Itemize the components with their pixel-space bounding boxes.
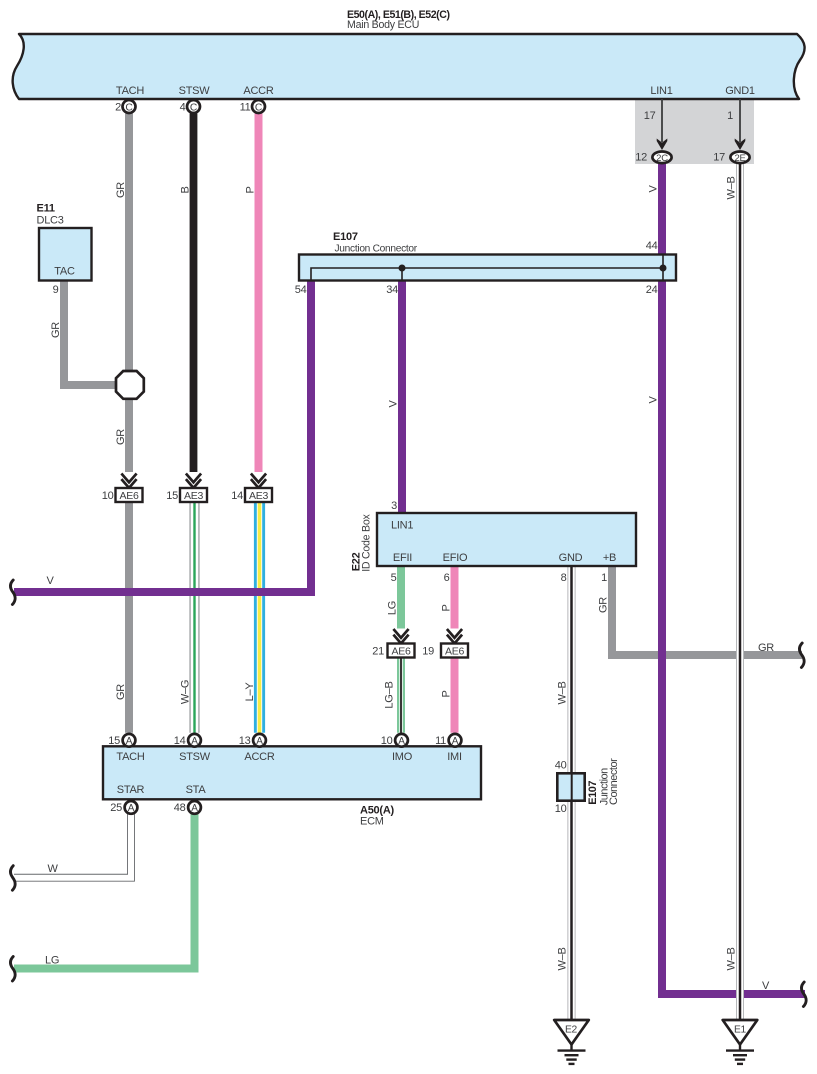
svg-text:1: 1 [727,110,733,122]
svg-text:AE6: AE6 [119,490,139,502]
E107 small junction connector box [557,773,584,800]
svg-text:V: V [648,396,660,404]
wire W-B black stripe [570,566,573,1021]
svg-text:2: 2 [115,101,121,113]
svg-text:17: 17 [644,110,656,122]
ground E2 [554,1020,589,1064]
svg-text:ECM: ECM [360,816,384,828]
AE6 connector 19 chevrons [447,629,462,643]
svg-text:A: A [398,736,405,747]
E107 internal drop 44-24 [662,256,664,280]
E107 junction connector box [299,255,676,281]
svg-text:40: 40 [555,760,567,772]
AE6 connector 10 [102,488,143,502]
svg-text:4: 4 [180,101,186,113]
E22 ID Code Box [377,513,636,566]
svg-text:IMI: IMI [447,751,462,763]
svg-text:Connector: Connector [608,758,620,805]
E107 internal drop 34 [401,268,403,280]
svg-text:A: A [191,736,198,747]
svg-text:STA: STA [186,784,207,796]
break squiggle V right [801,982,806,1007]
svg-text:C: C [190,102,198,113]
svg-text:12: 12 [635,152,647,164]
wire GR from DLC3 TAC pin 9 [64,280,117,385]
break squiggle GR right [799,643,804,668]
wire W-B white core [568,566,574,1021]
AE6 connector 19 [422,644,468,658]
svg-text:24: 24 [646,284,658,296]
wire LG-B from AE6 to ECM IMO green [397,657,405,733]
svg-text:ACCR: ACCR [243,85,273,97]
wire LG-B white gap [399,657,402,733]
ECM box A50(A) [103,746,481,799]
ECM pin 13 circle A [239,734,266,747]
svg-text:LG–B: LG–B [384,681,396,708]
svg-text:B: B [180,186,192,193]
svg-text:1: 1 [601,572,607,584]
svg-text:E11: E11 [37,203,55,215]
svg-text:E107: E107 [587,781,599,805]
svg-text:EFIO: EFIO [443,552,468,564]
wire LIN1 thin lead [661,99,663,142]
wire P ACCR vertical [255,114,263,473]
wire W-G white core [191,502,199,733]
wire W-B from 2E to ground E1 outline [736,163,744,1021]
svg-text:W–G: W–G [180,680,192,704]
AE3 connector 14 [231,488,272,502]
wire P from AE6 to ECM IMI [451,657,459,733]
svg-text:GR: GR [598,597,610,613]
svg-text:GR: GR [115,182,127,198]
svg-text:EFII: EFII [393,552,412,564]
svg-text:GND: GND [559,552,583,564]
ECM pin 48 circle A [174,801,201,814]
svg-text:2E: 2E [734,153,745,164]
svg-text:IMO: IMO [392,751,413,763]
break squiggle LG left [10,957,15,982]
svg-text:E2: E2 [565,1025,578,1036]
svg-text:W–B: W–B [726,947,738,970]
wire W from ECM STAR to left edge [14,814,131,878]
svg-text:ACCR: ACCR [244,751,274,763]
svg-text:W: W [48,863,59,875]
svg-text:V: V [648,185,660,193]
svg-text:Junction Connector: Junction Connector [335,244,418,255]
wire GR from E22 +B to right edge [612,566,802,655]
ECM pin 25 circle A [110,801,137,814]
wire L-Y white gaps [257,502,262,733]
svg-text:TAC: TAC [54,266,75,278]
arrowhead GND1 [735,139,746,151]
AE6 connector 21 [372,644,414,658]
E11 DLC3 box [39,228,92,281]
wire GND1 thin lead [739,99,741,142]
svg-text:15: 15 [108,735,120,747]
AE3 connector 15 [166,488,207,502]
E107 internal bus [311,268,663,280]
ECU pin 2 circle C [115,100,135,113]
svg-text:48: 48 [174,802,186,814]
wire V from 2C to E107 pin 44 [658,163,666,255]
svg-text:P: P [245,186,257,193]
svg-text:25: 25 [110,802,122,814]
ECM pin 11 circle A [435,734,461,747]
break squiggle W left [10,866,15,891]
svg-text:LG: LG [387,601,399,615]
wire W-G STSW lower outline [190,502,200,733]
svg-text:14: 14 [231,490,243,502]
svg-text:13: 13 [239,735,251,747]
svg-text:LG: LG [45,954,59,966]
ECM pin 15 circle A [108,734,135,747]
svg-text:3: 3 [391,500,397,512]
svg-text:6: 6 [444,572,450,584]
svg-text:AE3: AE3 [184,490,204,502]
wire LG-B black stripe [400,657,402,733]
svg-text:E107: E107 [333,231,358,243]
svg-text:GR: GR [50,322,62,338]
svg-text:GR: GR [115,684,127,700]
svg-text:E1: E1 [734,1025,747,1036]
svg-text:C: C [125,102,133,113]
svg-text:V: V [762,980,770,992]
AE3 connector 15 chevrons [186,474,201,488]
wire V from E107 pin 24 to right edge bottom [662,281,805,994]
svg-text:C: C [255,102,263,113]
svg-text:21: 21 [372,645,384,657]
wire V horizontal to E107 pin 54 [14,281,311,592]
svg-text:LIN1: LIN1 [391,520,413,532]
svg-text:DLC3: DLC3 [37,215,64,227]
svg-text:AE6: AE6 [391,646,411,658]
junction octagon on TACH wire [116,371,144,399]
svg-text:AE3: AE3 [249,490,269,502]
wire B STSW vertical [190,114,198,473]
wire W-B white core [737,163,743,1021]
AE6 connector 10 chevrons [121,474,136,488]
svg-text:AE6: AE6 [445,646,465,658]
junction dot 34 [399,265,406,272]
wire L-Y yellow stripe [258,502,262,733]
svg-text:V: V [47,575,55,587]
AE3 connector 14 chevrons [251,474,266,488]
svg-text:17: 17 [713,152,725,164]
svg-text:A: A [128,803,135,814]
svg-text:ID Code Box: ID Code Box [361,514,373,572]
svg-text:11: 11 [435,735,446,747]
wire W-B black stripe [739,163,742,1021]
svg-text:14: 14 [174,735,186,747]
wire L-Y ACCR lower blue [254,502,265,733]
connector shade area (gray) [635,99,754,164]
svg-text:10: 10 [102,490,114,502]
svg-text:A: A [126,736,133,747]
svg-text:44: 44 [646,240,658,252]
ground E1 [723,1020,758,1064]
svg-text:STSW: STSW [179,85,211,97]
wire GR TACH vertical upper [125,114,133,473]
svg-text:9: 9 [53,284,59,296]
connector 2E [713,152,749,164]
AE6 connector 21 chevrons [393,629,408,643]
svg-text:A: A [452,736,459,747]
ECM pin 10 circle A [381,734,408,747]
svg-text:TACH: TACH [116,85,144,97]
E107 small internal wire [571,775,573,801]
wire LG from E22 EFII to AE6 [397,566,405,629]
wire V from E107 pin 34 to E22 LIN1 [398,281,406,514]
svg-text:L–Y: L–Y [244,682,256,702]
break squiggle V left [10,580,15,605]
wire W-G green stripe [193,502,195,733]
svg-text:15: 15 [166,490,178,502]
svg-text:54: 54 [295,284,307,296]
wire GR TACH vertical lower [125,502,133,733]
svg-text:P: P [441,604,453,611]
svg-text:LIN1: LIN1 [650,85,672,97]
connector 2C [635,152,671,164]
svg-text:8: 8 [561,572,567,584]
svg-text:+B: +B [603,552,616,564]
ECM pin 14 circle A [174,734,201,747]
svg-text:10: 10 [555,803,567,815]
wire W-B from E22 GND to ground E2 outline [568,566,576,1021]
svg-text:GR: GR [115,429,127,445]
svg-text:V: V [388,400,400,408]
ECU pin 11 circle C [240,100,265,113]
svg-text:STSW: STSW [179,751,211,763]
svg-text:STAR: STAR [117,784,145,796]
svg-text:10: 10 [381,735,393,747]
svg-text:P: P [441,690,453,697]
svg-text:19: 19 [422,645,434,657]
svg-text:GND1: GND1 [725,85,755,97]
svg-text:A: A [191,803,198,814]
svg-text:34: 34 [386,284,398,296]
svg-text:GR: GR [758,642,774,654]
svg-text:5: 5 [391,572,397,584]
Main Body ECU box [13,34,805,99]
svg-text:Main Body ECU: Main Body ECU [347,19,419,31]
svg-text:TACH: TACH [116,751,144,763]
svg-text:W–B: W–B [557,681,569,704]
svg-text:W–B: W–B [557,947,569,970]
wire P from E22 EFIO to AE6 [451,566,459,629]
wire W white core [14,814,131,878]
svg-text:A: A [256,736,263,747]
ECU pin 4 circle C [180,100,200,113]
wire LG from ECM STA to left edge [14,814,195,969]
svg-text:11: 11 [240,101,251,113]
arrowhead LIN1 [657,139,668,151]
junction dot 44 [660,265,667,272]
svg-text:W–B: W–B [726,176,738,199]
svg-text:2C: 2C [656,153,668,164]
